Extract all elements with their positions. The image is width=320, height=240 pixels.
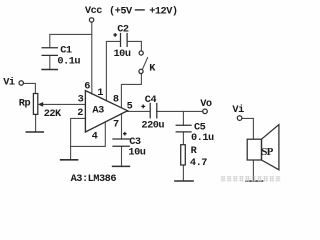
svg-text:4: 4 <box>92 130 98 142</box>
svg-text:4.7: 4.7 <box>190 157 207 169</box>
svg-text:Vo: Vo <box>200 98 212 110</box>
svg-text:0.1u: 0.1u <box>57 56 80 68</box>
svg-text:5: 5 <box>127 100 133 112</box>
svg-text:Rp: Rp <box>19 97 31 109</box>
svg-text:2: 2 <box>77 107 83 119</box>
svg-text:(+5V: (+5V <box>109 5 133 17</box>
svg-text:8: 8 <box>113 94 119 106</box>
svg-text:C2: C2 <box>117 24 129 36</box>
svg-text:Vi: Vi <box>232 104 244 116</box>
svg-text:C4: C4 <box>145 94 157 106</box>
svg-text:SP: SP <box>261 146 273 158</box>
svg-text:A3:LM386: A3:LM386 <box>71 173 117 185</box>
svg-text:0.1u: 0.1u <box>191 132 214 144</box>
svg-text:+12V): +12V) <box>149 5 177 17</box>
svg-text:Vcc: Vcc <box>85 5 102 17</box>
svg-text:Vi: Vi <box>3 76 15 88</box>
svg-text:1: 1 <box>97 87 103 99</box>
svg-text:10u: 10u <box>128 147 145 159</box>
svg-text:C1: C1 <box>60 44 72 56</box>
svg-text:A3: A3 <box>92 105 104 117</box>
svg-text:6: 6 <box>84 80 90 92</box>
svg-text:3: 3 <box>78 93 84 105</box>
svg-text:10u: 10u <box>114 48 131 60</box>
svg-text:220u: 220u <box>141 119 164 131</box>
svg-text:22K: 22K <box>44 108 62 120</box>
svg-text:7: 7 <box>113 119 119 131</box>
